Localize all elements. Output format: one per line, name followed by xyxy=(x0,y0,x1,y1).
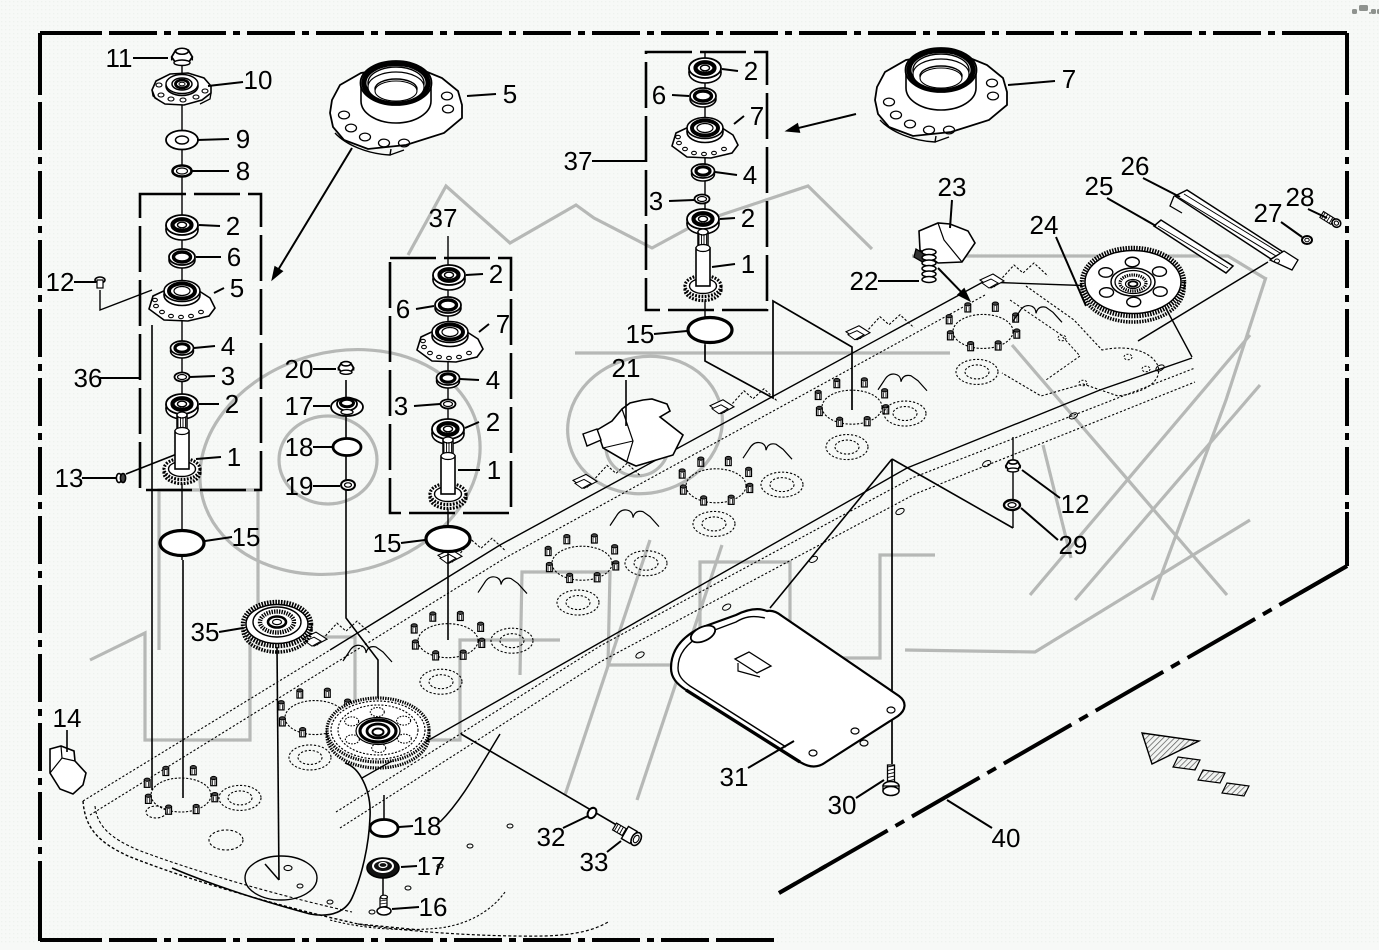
svg-text:40: 40 xyxy=(992,823,1021,853)
svg-text:30: 30 xyxy=(828,790,857,820)
svg-text:13: 13 xyxy=(55,463,84,493)
svg-text:15: 15 xyxy=(232,522,261,552)
svg-text:1: 1 xyxy=(227,442,241,472)
svg-text:9: 9 xyxy=(236,124,250,154)
svg-text:6: 6 xyxy=(227,242,241,272)
svg-text:20: 20 xyxy=(285,354,314,384)
svg-text:2: 2 xyxy=(744,56,758,86)
svg-text:37: 37 xyxy=(429,203,458,233)
svg-text:15: 15 xyxy=(626,319,655,349)
svg-text:25: 25 xyxy=(1085,171,1114,201)
svg-text:36: 36 xyxy=(74,363,103,393)
svg-text:2: 2 xyxy=(486,407,500,437)
svg-text:2: 2 xyxy=(489,259,503,289)
svg-text:3: 3 xyxy=(649,186,663,216)
svg-text:4: 4 xyxy=(743,160,757,190)
svg-text:29: 29 xyxy=(1059,530,1088,560)
svg-text:8: 8 xyxy=(236,156,250,186)
svg-text:7: 7 xyxy=(1062,64,1076,94)
svg-text:1: 1 xyxy=(741,249,755,279)
svg-text:2: 2 xyxy=(226,211,240,241)
svg-text:31: 31 xyxy=(720,762,749,792)
svg-text:24: 24 xyxy=(1030,210,1059,240)
svg-text:14: 14 xyxy=(53,703,82,733)
svg-text:26: 26 xyxy=(1121,151,1150,181)
svg-text:6: 6 xyxy=(652,80,666,110)
svg-text:19: 19 xyxy=(285,471,314,501)
svg-text:16: 16 xyxy=(419,892,448,922)
svg-text:37: 37 xyxy=(564,146,593,176)
svg-text:22: 22 xyxy=(850,266,879,296)
svg-text:10: 10 xyxy=(244,65,273,95)
svg-text:3: 3 xyxy=(221,361,235,391)
svg-text:12: 12 xyxy=(46,267,75,297)
svg-text:12: 12 xyxy=(1061,489,1090,519)
svg-text:17: 17 xyxy=(285,391,314,421)
svg-text:7: 7 xyxy=(750,101,764,131)
svg-text:1: 1 xyxy=(487,455,501,485)
svg-text:7: 7 xyxy=(496,309,510,339)
svg-text:18: 18 xyxy=(413,811,442,841)
svg-text:11: 11 xyxy=(106,43,133,73)
svg-text:35: 35 xyxy=(191,617,220,647)
svg-text:2: 2 xyxy=(225,389,239,419)
svg-text:21: 21 xyxy=(612,353,641,383)
svg-text:28: 28 xyxy=(1286,182,1315,212)
svg-text:5: 5 xyxy=(503,79,517,109)
svg-text:2: 2 xyxy=(741,203,755,233)
svg-text:33: 33 xyxy=(580,847,609,877)
svg-text:23: 23 xyxy=(938,172,967,202)
svg-text:27: 27 xyxy=(1254,198,1283,228)
svg-text:4: 4 xyxy=(486,365,500,395)
svg-text:3: 3 xyxy=(394,391,408,421)
svg-text:15: 15 xyxy=(373,528,402,558)
svg-text:4: 4 xyxy=(221,331,235,361)
svg-text:18: 18 xyxy=(285,432,314,462)
svg-text:5: 5 xyxy=(230,273,244,303)
svg-text:17: 17 xyxy=(417,851,446,881)
svg-text:32: 32 xyxy=(537,822,566,852)
svg-text:6: 6 xyxy=(396,294,410,324)
